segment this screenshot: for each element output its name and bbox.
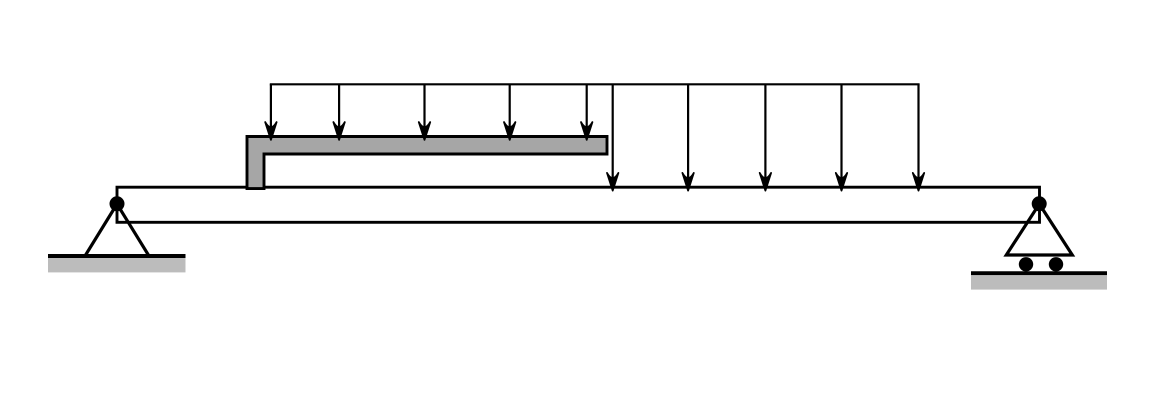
load top line	[270, 83, 920, 85]
load arrow 2 (left group)	[333, 84, 344, 140]
load arrow 5 (left group)	[581, 84, 592, 140]
right ground block	[971, 275, 1107, 289]
load arrow 10 (right group)	[913, 84, 924, 190]
left ground block	[48, 258, 186, 272]
load arrow 6 (right group)	[607, 84, 618, 190]
load arrow 8 (right group)	[760, 84, 771, 190]
roller left	[1019, 257, 1033, 271]
load arrow 7 (right group)	[682, 84, 693, 190]
left support triangle legs	[85, 204, 149, 256]
load arrow 3 (left group)	[419, 84, 430, 140]
right support triangle	[1006, 204, 1072, 255]
right support pin circle	[1032, 196, 1047, 211]
left ground line	[48, 254, 186, 258]
roller right	[1049, 257, 1063, 271]
right ground line	[971, 271, 1107, 275]
gray plate (L-shaped bracket on beam)	[247, 137, 607, 189]
left support pin circle	[110, 196, 125, 211]
load arrow 1 (left group)	[265, 84, 276, 140]
beam	[117, 187, 1040, 222]
load arrow 4 (left group)	[504, 84, 515, 140]
load arrow 9 (right group)	[836, 84, 847, 190]
